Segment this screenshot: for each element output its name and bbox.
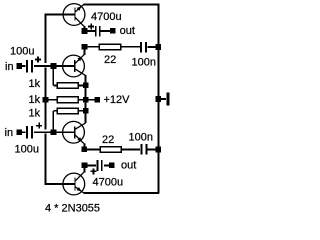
svg-text:100n: 100n	[132, 57, 156, 69]
svg-text:1k: 1k	[29, 78, 41, 90]
svg-text:+12V: +12V	[104, 94, 131, 106]
svg-text:100n: 100n	[129, 132, 153, 144]
svg-text:out: out	[121, 159, 136, 171]
svg-text:22: 22	[104, 54, 116, 66]
svg-text:1k: 1k	[29, 108, 41, 120]
svg-text:in: in	[5, 127, 14, 139]
svg-text:100u: 100u	[15, 144, 39, 156]
svg-text:4700u: 4700u	[91, 11, 122, 23]
svg-text:4 * 2N3055: 4 * 2N3055	[45, 203, 100, 215]
svg-text:out: out	[120, 25, 135, 37]
svg-text:100u: 100u	[10, 46, 34, 58]
svg-text:in: in	[5, 61, 14, 73]
svg-text:22: 22	[102, 134, 114, 146]
svg-text:1k: 1k	[29, 94, 41, 106]
svg-text:4700u: 4700u	[93, 177, 124, 189]
